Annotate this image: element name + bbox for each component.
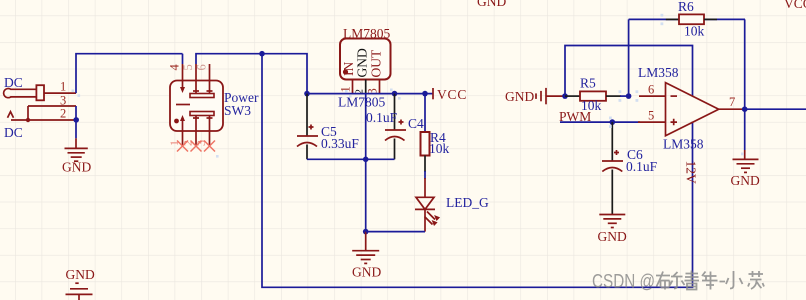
- wire VCC rail under regulator: [307, 93, 433, 95]
- designator C5: [321, 124, 337, 139]
- switch lower-left contact dot: [174, 119, 179, 124]
- svg-text:3: 3: [60, 93, 66, 107]
- connector J DC jack body: [4, 85, 44, 100]
- jack internal link pin3 to pin2: [26, 106, 30, 122]
- switch lower contact bar: [190, 112, 214, 119]
- wire R6 top run: [629, 18, 745, 20]
- value 10k: [581, 98, 602, 113]
- GND label at DC jack: [62, 160, 91, 175]
- junction at C4 top: [392, 91, 398, 97]
- svg-text:GND: GND: [477, 0, 506, 9]
- svg-text:6: 6: [648, 82, 654, 96]
- svg-text:5: 5: [181, 64, 195, 70]
- resistor R4: [421, 94, 430, 179]
- junction LED return: [363, 229, 369, 235]
- net label LED_G: [446, 195, 489, 210]
- op-amp pin 7: [719, 95, 745, 109]
- GND label below C6: [598, 229, 627, 244]
- pin name IN: [341, 62, 356, 76]
- junction on pin2: [73, 117, 79, 123]
- junction 12V tap on input rail: [259, 51, 265, 57]
- GND label at R5 input: [505, 89, 534, 104]
- svg-text:0.33uF: 0.33uF: [321, 136, 359, 151]
- svg-text:SW3: SW3: [224, 103, 251, 118]
- svg-text:1: 1: [60, 80, 66, 94]
- designator R5: [580, 76, 596, 91]
- wire pin1 up to top rail: [76, 54, 183, 93]
- wire output down to ground: [744, 109, 746, 150]
- GND label below output: [731, 173, 760, 188]
- switch lever line: [176, 104, 190, 106]
- ground symbol at DC jack: [65, 138, 88, 161]
- net label DC (top): [4, 75, 23, 90]
- wire LED return to ground junction: [366, 231, 425, 233]
- junction output node: [742, 106, 748, 112]
- comment text LM7805 above box: [343, 26, 391, 41]
- svg-text:5: 5: [648, 109, 654, 123]
- op-amp pin 5: [638, 109, 666, 123]
- junction inverting input node: [626, 93, 632, 99]
- svg-text:OUT: OUT: [369, 49, 384, 77]
- switch upper contact bar: [190, 91, 214, 98]
- power port VCC: [433, 87, 467, 102]
- svg-text:VCC: VCC: [784, 0, 806, 11]
- net label VCC top-right (truncated): [784, 0, 806, 11]
- value 0.33uF: [321, 136, 359, 151]
- GND label below regulator: [352, 265, 381, 280]
- regulator U LM7805 body: [340, 39, 391, 80]
- designator R6: [678, 0, 694, 14]
- designator Power: [224, 90, 259, 105]
- svg-text:6: 6: [195, 64, 209, 70]
- net label GND top (truncated): [477, 0, 506, 9]
- designator LM358 (bottom): [663, 137, 704, 152]
- pin 1 of DC jack: [44, 80, 76, 94]
- wire top rail into switch pin 4: [182, 54, 184, 64]
- svg-text:LM358: LM358: [638, 65, 679, 80]
- junction R5 left node: [562, 93, 568, 99]
- value 0.1uF: [626, 159, 658, 174]
- wire R6 right down to output: [744, 19, 746, 109]
- svg-text:LM358: LM358: [663, 137, 704, 152]
- wire GND node up and over to op-amp top pin: [565, 46, 693, 97]
- resistor R5: [565, 91, 629, 100]
- svg-text:GND: GND: [352, 265, 381, 280]
- svg-text:GND: GND: [355, 48, 370, 77]
- value 10k: [684, 24, 705, 39]
- ground symbol below regulator: [352, 232, 379, 264]
- ground symbol below C6: [599, 215, 625, 228]
- regulator pin 1 stub: [339, 80, 353, 94]
- svg-text:DC: DC: [4, 125, 23, 140]
- junction ground rail: [363, 157, 369, 163]
- svg-text:C4: C4: [408, 116, 424, 131]
- designator R4: [430, 130, 446, 145]
- svg-text:DC: DC: [4, 75, 23, 90]
- regulator pin 2 stub: [354, 80, 366, 95]
- connection artifacts: [72, 14, 744, 158]
- wire pin3/pin2 to ground: [75, 106, 77, 138]
- switch pin 2 (bottom, unused): [181, 116, 197, 147]
- net label PWM: [559, 109, 591, 124]
- junction at C5 top: [304, 91, 310, 97]
- wire regulator GND down: [365, 94, 367, 232]
- switch SW3 body: [170, 81, 223, 132]
- wire output to right edge: [745, 108, 806, 110]
- wire ground rail under capacitors: [307, 158, 395, 160]
- svg-text:R6: R6: [678, 0, 694, 14]
- designator C4: [408, 116, 424, 131]
- net label DC (bottom): [4, 125, 23, 140]
- svg-text:10k: 10k: [429, 141, 450, 156]
- switch pin 5: [181, 64, 196, 93]
- LED LED_G: [415, 178, 440, 232]
- svg-text:LED_G: LED_G: [446, 195, 489, 210]
- wire 12V run down and across bottom: [262, 54, 693, 288]
- junction at R4 top: [422, 91, 428, 97]
- svg-text:7: 7: [729, 95, 735, 109]
- capacitor C6: [602, 122, 623, 214]
- svg-text:0.1uF: 0.1uF: [626, 159, 658, 174]
- svg-text:4: 4: [168, 64, 182, 71]
- svg-text:GND: GND: [505, 89, 534, 104]
- value 10k: [429, 141, 450, 156]
- junction C6 tap: [610, 119, 616, 125]
- designator LM7805 (blue): [338, 95, 386, 110]
- svg-text:R5: R5: [580, 76, 596, 91]
- no-ERC cross on pin 1: [204, 141, 215, 152]
- GND label bottom-left: [66, 267, 95, 282]
- switch pin 1 (bottom, unused): [194, 116, 210, 147]
- switch pin 4: [168, 64, 186, 94]
- ground symbol bottom-left (inverted): [66, 283, 93, 300]
- pin 3 of DC jack: [28, 93, 76, 107]
- designator C6: [627, 147, 643, 162]
- svg-text:LM7805: LM7805: [338, 95, 386, 110]
- no-ERC cross on pin 3: [177, 141, 188, 152]
- svg-text:CSDN @: CSDN @: [592, 272, 655, 293]
- op-amp U2 LM358 triangle: [666, 83, 719, 136]
- watermark CSDN: [592, 271, 764, 293]
- switch pin 3 (bottom, unused): [167, 115, 185, 146]
- svg-text:GND: GND: [66, 267, 95, 282]
- svg-text:12V: 12V: [684, 161, 699, 185]
- net label 12V (rotated): [684, 161, 699, 185]
- svg-text:VCC: VCC: [437, 87, 467, 102]
- svg-text:GND: GND: [731, 173, 760, 188]
- resistor R6: [666, 14, 717, 24]
- op-amp pin 6: [639, 82, 666, 96]
- capacitor C4: [385, 94, 406, 160]
- pin name GND: [355, 48, 370, 77]
- svg-text:GND: GND: [598, 229, 627, 244]
- regulator pin 3 stub: [366, 80, 380, 95]
- wire switch pin5 to regulator input: [196, 54, 307, 94]
- ground symbol (rotated) at R5 input: [536, 88, 565, 104]
- pin name OUT: [369, 49, 384, 77]
- svg-text:2: 2: [60, 106, 66, 120]
- svg-text:0.1uF: 0.1uF: [366, 110, 398, 125]
- ground symbol below output: [733, 150, 759, 172]
- svg-text:LM7805: LM7805: [343, 26, 391, 41]
- designator SW3: [224, 103, 251, 118]
- wire feedback node up to R6: [628, 19, 630, 96]
- capacitor C5: [297, 94, 318, 160]
- switch pin 6: [195, 64, 210, 93]
- svg-text:10k: 10k: [684, 24, 705, 39]
- value 0.1uF: [366, 110, 398, 125]
- no-ERC cross on pin 2: [191, 141, 202, 152]
- pin 2 of DC jack with chevron: [8, 106, 77, 120]
- svg-text:GND: GND: [62, 160, 91, 175]
- designator LM358 (top): [638, 65, 679, 80]
- wire PWM to pin 5: [560, 121, 640, 123]
